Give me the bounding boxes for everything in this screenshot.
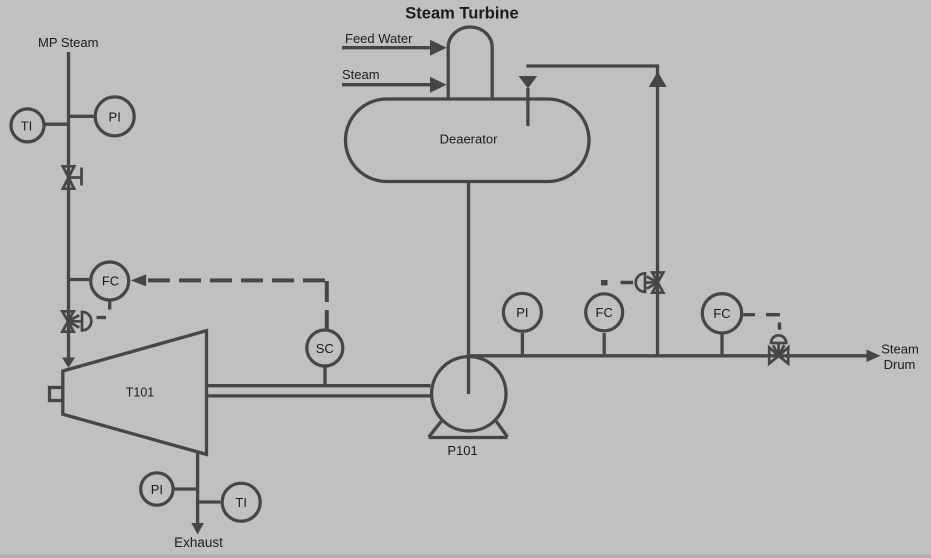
svg-text:SC: SC <box>316 341 334 356</box>
svg-text:Drum: Drum <box>884 357 916 372</box>
svg-text:FC: FC <box>713 306 730 321</box>
svg-text:FC: FC <box>102 273 119 288</box>
svg-text:Steam: Steam <box>881 342 919 357</box>
svg-text:PI: PI <box>109 109 121 124</box>
svg-text:T101: T101 <box>126 386 155 400</box>
svg-text:Exhaust: Exhaust <box>174 535 223 550</box>
svg-text:Steam: Steam <box>342 67 380 82</box>
svg-text:Deaerator: Deaerator <box>440 132 498 147</box>
svg-text:PI: PI <box>516 305 528 320</box>
svg-text:TI: TI <box>21 118 33 133</box>
svg-text:FC: FC <box>596 305 613 320</box>
svg-text:MP Steam: MP Steam <box>38 35 98 50</box>
svg-text:Steam Turbine: Steam Turbine <box>405 5 518 23</box>
svg-text:TI: TI <box>235 495 247 510</box>
svg-text:PI: PI <box>151 482 163 497</box>
svg-text:P101: P101 <box>447 443 477 458</box>
svg-text:Feed Water: Feed Water <box>345 31 413 46</box>
